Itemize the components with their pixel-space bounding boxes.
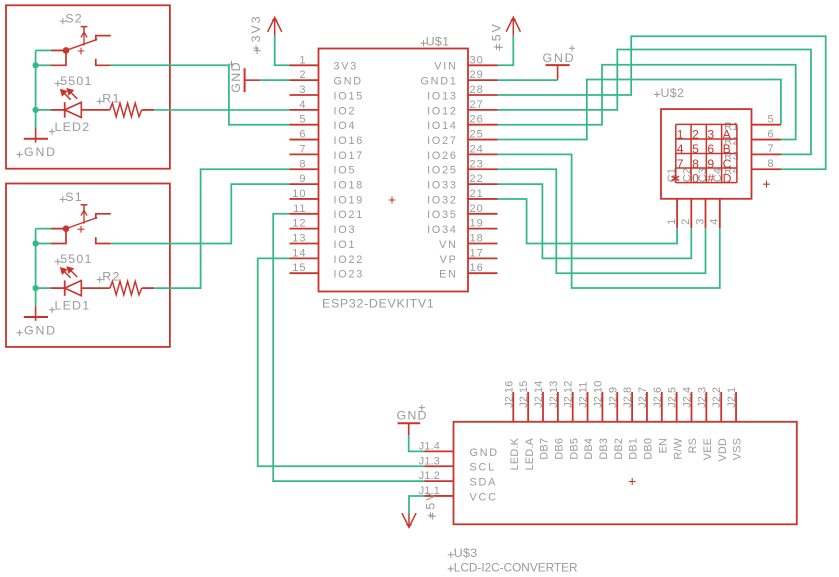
switch S2 upper contact [96,36,111,41]
label keypad row net R4 [724,165,738,177]
svg-text:5: 5 [692,142,699,156]
svg-text:26: 26 [470,114,484,126]
U$2 key legend 5 [692,142,699,156]
svg-text:EN: EN [657,438,669,454]
label keypad column net C3 (rotated) [697,168,709,182]
svg-text:GND: GND [543,51,576,65]
wire net N$2A vertical GND rail x=35.6 [35,50,37,128]
U$1 pin 30 (VIN) stub + number + name [434,54,497,72]
U$1 pin 29 (GND1) stub + number + name [420,69,497,87]
ground symbol GND4 stem [557,65,559,80]
svg-text:24: 24 [470,143,484,155]
U$2 pin 3 stub + number (bottom) [694,199,706,228]
svg-text:8: 8 [692,157,699,171]
svg-text:3: 3 [299,84,306,96]
resistor R1 right lead [142,109,154,111]
LED LED2 light arrow 1 [61,90,71,100]
U$1 origin cross [389,197,396,204]
label LCD-I2C-CONVERTER value [448,560,578,574]
svg-text:5: 5 [299,114,306,126]
wire net KR1 IO27 to keypad pin5 [498,80,781,140]
label keypad row net R1 [724,121,738,133]
U$1 pin 16 (EN) stub + number + name [439,262,497,280]
U$2 key legend D [723,171,732,185]
svg-text:J2.15: J2.15 [518,381,530,408]
ground symbol GND5 bar [398,422,421,424]
ground symbol GND5 stem [408,423,410,435]
label GND of GND1 [17,323,57,337]
label LED1 designator [49,298,90,313]
label keypad column net C2 (rotated) [681,168,693,182]
U$3 pin J1.2 (SDA) stub + number + name [419,470,497,488]
svg-text:J2.8: J2.8 [622,387,634,408]
label 5501 value of LED2 [55,74,93,88]
U$2 key legend 2 [692,128,699,142]
switch S1 pin stub 1 [51,228,66,230]
svg-text:3: 3 [694,218,706,225]
switch S1 upper contact [96,214,111,219]
ground symbol GND4 bar [546,64,570,66]
svg-text:J2.4: J2.4 [682,387,694,408]
U$1 pin 20 (IO35) stub + number + name [427,203,497,221]
ground symbol GND3 stem [245,79,260,81]
svg-text:DB3: DB3 [598,438,610,460]
U$1 pin 5 (IO4) stub + number + name [290,114,357,132]
label keypad column net C4 (rotated) [712,168,724,182]
svg-text:IO17: IO17 [334,150,365,162]
svg-text:IO34: IO34 [427,224,458,236]
U$1 pin 17 (VP) stub + number + name [440,247,498,265]
svg-text:23: 23 [470,158,484,170]
ground symbol GND1 bar [24,316,48,318]
U$1 pin 8 (IO5) stub + number + name [290,158,357,176]
U$3 origin cross [629,478,636,485]
svg-text:11: 11 [293,203,306,215]
U$3 pin J2.6 (EN) stub + number + name [652,387,670,454]
label LED2 designator [49,120,90,135]
svg-text:21: 21 [470,188,484,200]
U$2 keypad 4x4 grid [676,124,737,182]
svg-text:VEE: VEE [702,438,714,460]
U$1 pin 2 (GND) stub + number + name [290,69,363,87]
svg-text:IO3: IO3 [334,224,357,236]
switch S1 actuator T-bar [81,204,88,206]
U$1 pin 18 (VN) stub + number + name [439,233,497,251]
U$2 key legend 3 [707,128,714,142]
wire net GND to ESP pin2 [260,79,290,81]
U$3 pin J2.15 (LED.A) stub + number + name [518,381,536,471]
LED LED2 light arrow 2 [67,89,77,99]
wire net GND to LCD J1.4 [409,435,425,451]
svg-text:J2.1: J2.1 [726,387,738,408]
LED LED1 cathode bar [64,280,66,295]
U$3 pin J2.7 (DB0) stub + number + name [637,387,655,460]
U$2 key legend 0 [692,171,699,185]
svg-text:J1.3: J1.3 [419,455,440,467]
LED LED2 right lead [81,109,110,111]
switch S1 lever [66,218,97,229]
junction dot node rail/M1.2 [33,240,39,246]
svg-text:S2: S2 [65,12,83,26]
U$3 pin J2.11 (DB4) stub + number + name [578,381,596,459]
svg-text:IO18: IO18 [334,180,365,192]
wire LED to rail [36,109,51,111]
U$2 key legend B [723,142,731,156]
ground symbol GND3 bar (rotated) [244,68,246,92]
wire net +3V3 to ESP pin1 [275,36,290,66]
U$1 pin 14 (IO22) stub + number + name [290,247,365,265]
U$2 pin 2 stub + number (bottom) [680,199,692,228]
U$1 pin 10 (IO19) stub + number + name [290,188,365,206]
svg-text:U$3: U$3 [454,546,478,560]
svg-text:LED.A: LED.A [524,437,536,470]
U$2 key legend # [707,171,714,185]
svg-text:R2: R2 [102,270,120,284]
switch S2 pin stub 1 [51,49,66,51]
svg-text:27: 27 [470,99,484,111]
U$3 pin J2.5 (R/W) stub + number + name [667,387,685,460]
svg-text:IO26: IO26 [427,150,458,162]
label keypad column net C1 (rotated) [666,168,678,182]
U$3 pin J2.9 (DB2) stub + number + name [607,387,625,460]
supply +3V3 arrow symbol [268,17,282,36]
supply +5V arrow symbol (top) [506,17,520,36]
label GND5 [397,405,428,423]
U$3 pin J2.13 (DB6) stub + number + name [548,381,566,460]
svg-text:9: 9 [707,157,714,171]
U$3 pin J2.14 (DB7) stub + number + name [533,381,551,460]
ground symbol GND2 stem [35,128,37,143]
svg-text:LED.K: LED.K [509,437,521,470]
switch S2 origin cross [78,48,85,55]
svg-text:S1: S1 [65,190,83,204]
LED LED2 triangle [65,102,82,117]
svg-text:DB6: DB6 [553,438,565,460]
svg-text:DB1: DB1 [628,438,640,460]
svg-text:6: 6 [299,129,306,141]
U$2 key legend 7 [677,157,684,171]
U$1 pin 26 (IO14) stub + number + name [427,114,497,132]
svg-text:IO32: IO32 [427,194,458,206]
svg-text:1: 1 [666,218,678,225]
U$3 pin J1.4 (GND) stub + number + name [419,440,499,458]
label +5V (top) [489,22,503,51]
svg-text:6: 6 [767,128,774,140]
svg-text:IO21: IO21 [334,209,365,221]
module frame box (M1 button/LED subcircuit) [6,184,170,347]
svg-text:IO15: IO15 [334,90,365,102]
wire net N$1A vertical GND rail x=35.6 [35,229,37,307]
svg-text:8: 8 [299,158,306,170]
label 5501 value of LED1 [55,252,93,266]
LED LED1 light arrow 2 [67,267,77,277]
U$1 pin 1 (3V3) stub + number + name [290,54,359,72]
svg-text:2: 2 [299,69,306,81]
svg-text:IO13: IO13 [427,90,458,102]
module frame box (M2 button/LED subcircuit) [6,5,170,168]
wire net KR3 IO12 to keypad pin7 [498,50,812,155]
svg-text:D: D [723,171,732,185]
label U$3 designator [448,546,478,560]
U$1 pin 6 (IO16) stub + number + name [290,129,365,147]
svg-text:J2.13: J2.13 [548,381,560,408]
resistor R2 zigzag body [110,281,142,295]
svg-text:RS: RS [687,438,699,454]
svg-text:8: 8 [767,158,774,170]
svg-text:4: 4 [677,142,684,156]
svg-text:GND: GND [24,323,57,337]
label S1 designator [60,190,83,204]
label R1 designator [97,91,121,105]
switch S2 actuator stem [83,27,85,34]
svg-text:IO5: IO5 [334,165,357,177]
svg-text:GND: GND [397,409,428,423]
U$1 pin 28 (IO13) stub + number + name [427,84,497,102]
svg-text:19: 19 [470,218,484,230]
svg-text:IO12: IO12 [427,105,458,117]
junction dot node rail/LED [33,285,39,291]
ground symbol GND1 stem [35,306,37,321]
svg-text:IO2: IO2 [334,105,357,117]
svg-text:GND: GND [24,145,57,159]
switch S1 pin stub 2 return [51,229,66,244]
wire net +5V to LCD J1.1 VCC [409,496,425,513]
junction dot node rail/M2.2 [33,62,39,68]
svg-text:28: 28 [470,84,484,96]
U$3 pin J2.3 (VEE) stub + number + name [696,387,714,460]
svg-text:VDD: VDD [717,438,729,462]
svg-text:J1.2: J1.2 [419,470,440,482]
svg-text:IO14: IO14 [427,120,458,132]
LED LED1 left lead [51,287,65,289]
svg-text:VP: VP [440,254,458,266]
U$2 key legend C [723,157,732,171]
switch S2 actuator arrow [81,32,87,45]
label U$1 designator [420,35,449,49]
U$3 pin J2.2 (VDD) stub + number + name [711,387,729,462]
U$3 pin J1.3 (SCL) stub + number + name [419,455,496,473]
U$2 pin 5 stub + number [752,114,782,126]
svg-text:U$2: U$2 [661,86,685,100]
svg-text:#: # [707,171,714,185]
svg-text:18: 18 [470,233,484,245]
svg-text:R/W: R/W [672,437,684,459]
svg-text:DB2: DB2 [613,438,625,460]
wire net +5V to ESP pin30 VIN [498,36,514,66]
svg-text:SCL: SCL [470,462,496,474]
U$1 pin 9 (IO18) stub + number + name [290,173,365,191]
wire net GND to ESP pin29 GND1 [498,79,558,81]
svg-text:7: 7 [677,157,684,171]
svg-text:9: 9 [299,173,306,185]
svg-text:10: 10 [292,188,306,200]
svg-text:25: 25 [470,129,484,141]
switch S2 actuator T-bar [81,26,88,28]
label S2 designator [60,12,83,26]
svg-text:3: 3 [707,128,714,142]
U$2 pin 4 stub + number (bottom) [709,199,721,228]
svg-text:16: 16 [470,262,484,274]
LED LED1 triangle [65,281,82,296]
svg-text:13: 13 [292,233,306,245]
wire net KR2 IO14 to keypad pin6 [498,65,796,140]
label ESP32-DEVKITV1 value [322,297,434,311]
svg-text:IO1: IO1 [334,239,357,251]
U$1 pin 3 (IO15) stub + number + name [290,84,365,102]
svg-text:J2.3: J2.3 [696,387,708,408]
wire net SW2 (S2 to ESP IO4 pin5) [111,65,290,124]
svg-text:1: 1 [677,128,684,142]
svg-text:4: 4 [709,218,721,225]
label keypad row net R3 [724,150,738,162]
U$3 pin J2.1 (VSS) stub + number + name [726,387,744,460]
U$1 pin 22 (IO33) stub + number + name [427,173,497,191]
wire net SW1 (S1 to ESP IO18 pin9) [111,184,290,243]
svg-text:17: 17 [470,247,484,259]
wire M2 pin2 to rail [36,64,51,66]
svg-text:DB5: DB5 [568,438,580,460]
svg-text:3V3: 3V3 [334,61,359,73]
svg-text:2: 2 [680,218,692,225]
label R2 designator [97,270,121,284]
wire net KC4 IO26 to keypad pin4 [498,154,720,288]
U$2 key legend * [672,174,680,183]
U$3 pin J1.1 (VCC) stub + number + name [419,485,498,503]
svg-text:J2.16: J2.16 [503,381,515,408]
svg-text:IO25: IO25 [427,165,458,177]
svg-text:LCD-I2C-CONVERTER: LCD-I2C-CONVERTER [454,560,578,574]
U$2 key legend 4 [677,142,684,156]
svg-text:1: 1 [299,54,306,66]
U$3 pin J2.8 (DB1) stub + number + name [622,387,640,460]
svg-text:IO33: IO33 [427,180,458,192]
switch S2 lower contact [96,59,111,65]
U$3 pin J2.16 (LED.K) stub + number + name [503,381,521,471]
svg-text:IO19: IO19 [334,194,365,206]
svg-text:A: A [723,128,732,142]
wire net SDA (ESP IO21 pin11 to LCD SDA) [273,214,424,481]
svg-text:J2.12: J2.12 [563,381,575,408]
svg-text:DB7: DB7 [539,438,551,460]
wire net R1OUT (R1 to ESP IO2 pin4) [154,109,289,111]
wire net KC2 IO33 to keypad pin2 [498,184,692,258]
U$2 key legend 8 [692,157,699,171]
wire M1 pin2 to rail [36,243,51,245]
module U$3 LCD-I2C body rectangle [454,422,797,525]
svg-text:5501: 5501 [60,252,92,266]
wire net KR4 IO13 to keypad pin8 [498,36,826,169]
label +3V3 [249,14,263,54]
switch S1 actuator arrow [81,210,87,223]
svg-text:14: 14 [292,247,306,259]
svg-text:J2.9: J2.9 [607,387,619,408]
U$3 pin J2.10 (DB3) stub + number + name [592,381,610,460]
svg-text:2: 2 [692,128,699,142]
U$2 pin 1 stub + number (bottom) [666,199,678,228]
U$1 pin 7 (IO17) stub + number + name [290,143,365,161]
svg-text:J2.5: J2.5 [667,387,679,408]
U$3 pin J2.4 (RS) stub + number + name [682,387,700,454]
U$2 key legend 9 [707,157,714,171]
svg-text:7: 7 [767,143,774,155]
U$2 pin 6 stub + number [752,128,782,140]
switch S1 junction dot [63,225,70,232]
U$1 pin 4 (IO2) stub + number + name [290,99,357,117]
svg-text:DB4: DB4 [583,438,595,460]
wire net R2OUT (R2 to ESP IO5 pin8) [154,169,289,288]
svg-text:U$1: U$1 [426,35,450,49]
U$1 pin 12 (IO3) stub + number + name [290,218,357,236]
svg-text:5: 5 [767,114,774,126]
svg-text:J2.11: J2.11 [578,381,590,407]
U$2 key legend 1 [677,128,684,142]
svg-text:GND1: GND1 [420,76,457,88]
resistor R2 right lead [142,287,154,289]
svg-text:GND: GND [229,61,243,93]
svg-text:J2.7: J2.7 [637,387,649,408]
U$1 pin 23 (IO25) stub + number + name [427,158,497,176]
U$2 pin 8 stub + number [752,158,782,170]
svg-text:SDA: SDA [470,477,498,489]
LED LED2 left lead [51,109,65,111]
svg-text:4: 4 [299,99,306,111]
switch S1 lower contact [96,237,111,243]
svg-text:IO35: IO35 [427,209,458,221]
svg-text:6: 6 [707,142,714,156]
svg-text:VCC: VCC [470,491,498,503]
label U$2 designator [654,86,684,100]
ground symbol GND2 bar [24,138,48,140]
U$2 origin cross [763,181,770,188]
switch S1 origin cross [78,226,85,233]
resistor R1 zigzag body [110,103,142,117]
supply +5V arrow symbol (bottom, pointing down) [402,513,416,528]
wire net KC3 IO25 to keypad pin3 [498,169,706,273]
wire M1 pin1 to rail [36,228,51,230]
svg-text:J2.14: J2.14 [533,381,545,408]
svg-text:IO23: IO23 [334,269,365,281]
wire M2 pin1 to rail [36,49,51,51]
svg-text:12: 12 [292,218,306,230]
U$1 pin 24 (IO26) stub + number + name [427,143,497,161]
label GND3 [228,61,243,93]
svg-text:IO22: IO22 [334,254,365,266]
svg-text:29: 29 [470,69,484,81]
svg-text:J2.6: J2.6 [652,387,664,408]
svg-text:7: 7 [299,143,306,155]
svg-text:IO16: IO16 [334,135,365,147]
svg-text:J2.10: J2.10 [592,381,604,408]
svg-text:B: B [723,142,731,156]
U$2 pin 7 stub + number [752,143,782,155]
svg-text:GND: GND [334,76,363,88]
svg-text:ESP32-DEVKITV1: ESP32-DEVKITV1 [322,297,434,311]
U$2 key legend 6 [707,142,714,156]
svg-text:VIN: VIN [434,61,457,73]
svg-text:+3V3: +3V3 [249,14,263,51]
switch S2 lever [66,39,97,50]
label GND of GND2 [17,145,57,159]
wire net KC1 IO32 to keypad pin1 [498,199,678,244]
svg-text:15: 15 [292,262,306,274]
svg-text:LED2: LED2 [55,120,91,134]
svg-text:IO4: IO4 [334,120,357,132]
op-amp? no - module U$1 ESP32 body rectangle [319,49,469,292]
svg-text:VSS: VSS [732,438,744,460]
label +5V (bottom) [424,490,438,519]
svg-text:22: 22 [470,173,484,185]
svg-text:J2.2: J2.2 [711,387,723,408]
